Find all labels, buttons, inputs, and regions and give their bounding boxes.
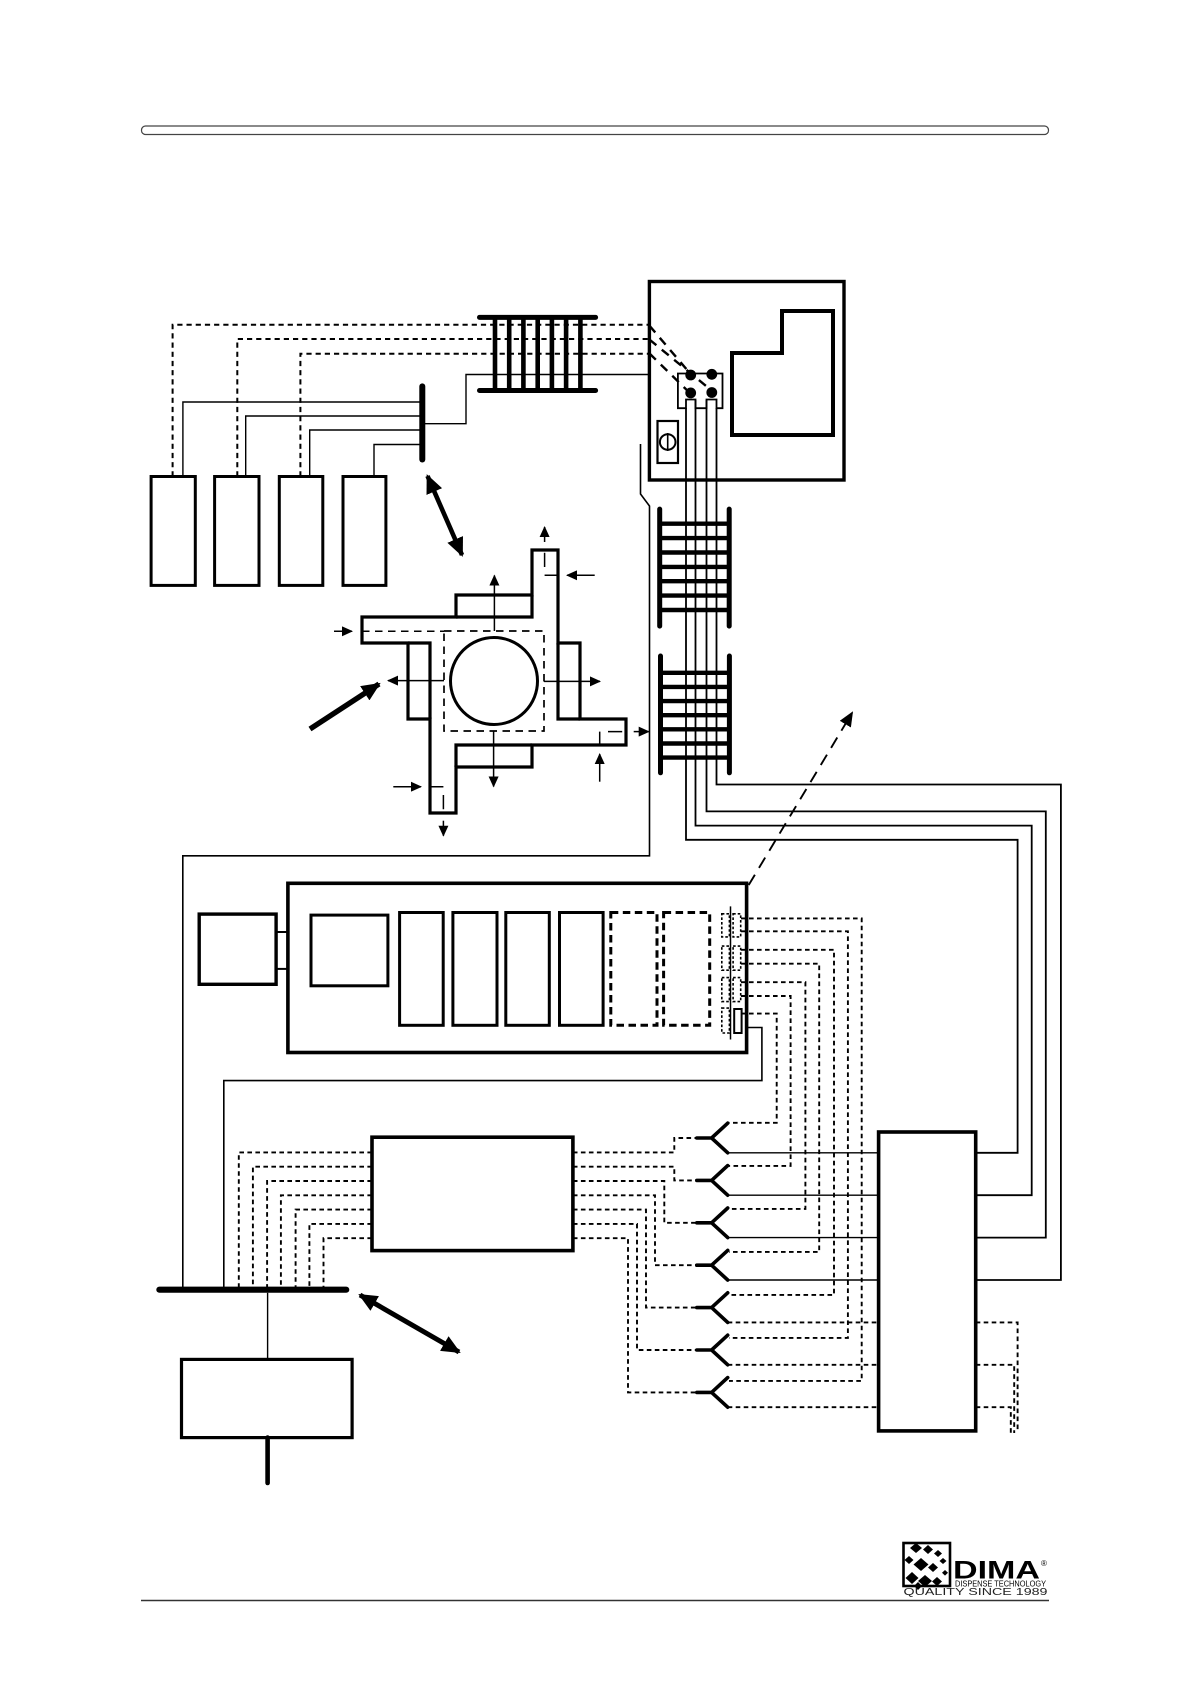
Y splitter 5: [697, 1293, 728, 1323]
sensor wire C: [310, 430, 423, 477]
pcb dotted output 7: [729, 1014, 777, 1123]
thick arrow at valve inlet: [310, 684, 379, 729]
motor wire left 4: [281, 1195, 372, 1287]
pcb dotted output 5: [729, 982, 805, 1209]
motor wire left 1: [239, 1152, 372, 1287]
pcb relay 1: [311, 915, 388, 986]
screw slot: [667, 433, 669, 451]
cable wire w2: [696, 400, 1032, 1195]
connector pin 4: [706, 387, 717, 398]
rotary valve rotor circle: [451, 638, 538, 725]
wire bus bar to pump: [267, 1293, 269, 1360]
pcb relay 2: [400, 913, 444, 1026]
Y splitter 7 output dashed: [728, 1406, 879, 1408]
distribution box dashed tail 3: [976, 1407, 1011, 1436]
pcb option slot 1: [611, 913, 657, 1026]
bus bar: [159, 1287, 346, 1293]
junction bar: [419, 386, 425, 459]
distribution box dashed tail 1: [976, 1322, 1018, 1430]
cable clamp 2 rungs: [660, 524, 730, 610]
rotary valve step divider top: [456, 595, 532, 617]
pcb side module link 1: [276, 931, 288, 933]
Y splitter 5 output dashed: [728, 1321, 879, 1323]
cable clamp 3 rails: [661, 656, 730, 773]
rotary valve step divider left: [408, 643, 430, 719]
Y splitter 6 output dashed: [728, 1364, 879, 1366]
Y splitter 3 output solid: [728, 1237, 879, 1239]
pcb relay 4: [506, 913, 550, 1026]
top arm L channel: [545, 553, 558, 576]
pcb board box: [288, 883, 747, 1052]
right arm out-arrow: [634, 731, 649, 733]
valve block 1: [151, 477, 195, 586]
dashed wire inside controller 3: [649, 353, 688, 391]
inlet dashed line: [362, 630, 444, 632]
motor wire right 6: [573, 1224, 696, 1350]
connector pin 1: [685, 370, 696, 381]
controller box: [649, 282, 844, 481]
port arrow top step: [493, 576, 495, 632]
pcb dotted output 2: [729, 931, 848, 1338]
Y splitter 2: [697, 1166, 728, 1196]
cable clamp 1 rungs: [495, 317, 580, 390]
port arrow bottom step: [493, 731, 495, 787]
distribution box dashed tail 2: [976, 1365, 1015, 1433]
pcb solid pin: [734, 1009, 741, 1033]
motor wire left 5: [296, 1210, 372, 1288]
Y splitter 4 output solid: [728, 1279, 879, 1281]
Y splitter 3: [697, 1208, 728, 1238]
L bracket inside controller: [732, 311, 833, 435]
inlet arrow: [334, 630, 352, 632]
svg-text:QUALITY SINCE 1989: QUALITY SINCE 1989: [904, 1587, 1049, 1598]
pcb side module: [199, 914, 276, 984]
motor wire left 7: [324, 1238, 373, 1287]
distribution box right: [879, 1132, 976, 1431]
pump shaft stub: [265, 1438, 270, 1483]
wire junction bar to terminal: [422, 375, 667, 424]
pcb dotted output 3: [729, 950, 834, 1295]
pcb relay 5: [560, 913, 604, 1026]
cable wire w3: [707, 400, 1046, 1238]
pcb dotted output 6: [729, 996, 791, 1166]
pcb side module link 2: [276, 968, 288, 970]
pump box: [182, 1359, 353, 1437]
DIMA logo box: [904, 1543, 951, 1586]
cable clamp 1 rail bottom: [480, 388, 596, 393]
motor wire right 2: [573, 1167, 696, 1181]
bottom arm out-arrow: [442, 821, 444, 836]
pcb return wire: [224, 1028, 762, 1288]
enclosure wire left: [183, 444, 650, 1288]
right arm L channel: [600, 732, 623, 745]
top arm out-arrow: [544, 527, 546, 542]
bottom arm L channel: [431, 787, 444, 810]
port arrow right step: [544, 680, 600, 682]
sensor wire B: [246, 416, 423, 477]
motor wire left 2: [253, 1167, 372, 1288]
motor wire left 3: [267, 1181, 372, 1288]
valve block 2: [215, 477, 259, 586]
Y splitter 1: [697, 1123, 728, 1153]
rotary valve step divider bottom: [456, 745, 532, 767]
dotted control wire 2: [237, 339, 649, 477]
top arm in-arrow: [567, 574, 595, 576]
footer rule: [141, 1600, 1049, 1602]
pcb pin pad row 2: [722, 946, 730, 970]
connector pin 3: [685, 388, 696, 399]
pcb option slot 2: [664, 913, 710, 1026]
connector shell: [678, 374, 723, 409]
dotted control wire 3: [300, 354, 649, 477]
thick arrow at junction bar: [428, 476, 463, 555]
sensor wire D: [374, 445, 422, 477]
Y splitter 4: [697, 1250, 728, 1280]
Y splitter 1 output solid: [728, 1152, 879, 1154]
thick double arrow at bus bar: [360, 1295, 459, 1352]
valve block 3: [279, 477, 323, 586]
motor wire right 5: [573, 1210, 696, 1308]
cable clamp 3 rungs: [661, 673, 730, 758]
Y splitter 7: [697, 1378, 728, 1408]
sensor wire A: [183, 402, 422, 477]
motor wire right 7: [573, 1238, 696, 1392]
motor controller box: [372, 1137, 573, 1250]
rotary valve body outline: [362, 550, 626, 813]
motor wire right 3: [573, 1181, 696, 1223]
port arrow left step: [388, 680, 444, 682]
connector pin 2: [706, 369, 717, 380]
cable clamp 1 rail top: [480, 315, 596, 320]
pcb relay 3: [453, 913, 497, 1026]
dashed wire inside controller 1: [649, 326, 688, 371]
cable clamp 2 rails: [660, 509, 730, 626]
rotary valve dashed chamber: [444, 631, 544, 731]
svg-text:®: ®: [1041, 1559, 1047, 1568]
valve block 4: [343, 477, 386, 586]
pcb pin pad row 1: [722, 914, 730, 937]
dotted control wire 1: [173, 325, 650, 477]
dashed wire inside controller 2: [649, 340, 711, 391]
Y splitter 6: [697, 1335, 728, 1365]
pcb dotted output 4: [729, 964, 819, 1252]
motor wire right 4: [573, 1195, 696, 1265]
screw head: [660, 434, 676, 450]
motor wire right 1: [573, 1138, 696, 1152]
Y splitter 2 output solid: [728, 1194, 879, 1196]
pcb pin header line: [730, 906, 732, 1039]
screw terminal: [658, 421, 679, 463]
cable wire w1: [686, 408, 1018, 1153]
pcb pin pad row 4: [722, 1008, 730, 1033]
rotary valve step divider right: [558, 643, 580, 719]
pcb dotted output 1: [729, 918, 862, 1381]
cable wire w4: [717, 408, 1061, 1280]
bottom arm in-arrow: [393, 786, 421, 788]
DIMA logo mosaic: [905, 1543, 949, 1590]
dashed pointer arrow to pcb: [749, 713, 852, 885]
pcb pin pad row 3: [722, 978, 730, 1002]
motor wire left 6: [309, 1224, 372, 1288]
right arm in-arrow: [599, 754, 601, 782]
header rule: [142, 126, 1049, 135]
